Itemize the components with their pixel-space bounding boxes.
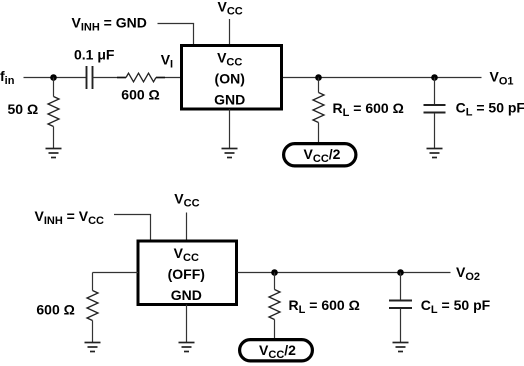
wire fin to junction (24, 77, 87, 79)
resistor RL1 (313, 93, 324, 123)
svg-text:(ON): (ON) (215, 71, 245, 87)
resistor 600 ohm top (126, 73, 156, 82)
svg-text:0.1 μF: 0.1 μF (74, 47, 115, 63)
svg-text:600 Ω: 600 Ω (121, 87, 159, 103)
junction dot at fin node (50, 74, 57, 81)
wire stub right of R 600 (156, 77, 165, 79)
svg-text:CL = 50 pF: CL = 50 pF (456, 100, 524, 119)
svg-text:RL = 600 Ω: RL = 600 Ω (289, 297, 360, 316)
wire capacitor to R 600 (93, 77, 118, 79)
svg-text:50 Ω: 50 Ω (8, 101, 39, 117)
wire dot to RL1 (318, 78, 320, 93)
wire VCC2 down to box top (186, 213, 188, 242)
wire VINH down to box top (193, 24, 195, 47)
junction dot RL1 (315, 74, 322, 81)
wire R 600 bottom to ground (92, 321, 94, 343)
svg-text:VINH = VCC: VINH = VCC (35, 208, 105, 227)
source oval VCC/2 bottom (240, 340, 313, 361)
wire junction down to R 50 ohm (53, 78, 55, 97)
wire stub left of R 600 (117, 77, 126, 79)
wire dot to CL1 (434, 78, 436, 105)
svg-text:VCC: VCC (174, 190, 199, 209)
ground below box U2 (179, 343, 195, 352)
source oval VCC/2 top (284, 144, 356, 166)
svg-text:600 Ω: 600 Ω (36, 302, 74, 318)
junction dot RL2 (271, 269, 278, 276)
wire VINH2 down to box top (150, 215, 152, 242)
svg-text:CL = 50 pF: CL = 50 pF (421, 297, 491, 316)
capacitor CL1 (424, 105, 446, 113)
svg-text:fin: fin (0, 68, 15, 87)
wire dot to RL2 (274, 273, 276, 290)
wire output VO1 (283, 77, 482, 79)
wire CL2 to ground (400, 309, 402, 343)
capacitor CL2 (389, 301, 412, 309)
svg-text:VINH = GND: VINH = GND (72, 15, 147, 34)
svg-text:GND: GND (214, 91, 245, 107)
resistor 600 ohm bottom (87, 291, 98, 321)
wire box U1 GND down (229, 109, 231, 149)
capacitor 0.1 uF (87, 66, 93, 89)
junction dot CL2 (397, 269, 404, 276)
svg-text:RL = 600 Ω: RL = 600 Ω (333, 100, 404, 119)
wire RL2 to VCC/2 source (274, 320, 276, 340)
svg-text:VO2: VO2 (456, 264, 480, 283)
svg-text:(OFF): (OFF) (168, 266, 205, 282)
wire VINH2 horizontal (114, 214, 151, 216)
ground below CL1 (427, 149, 443, 158)
wire dot to CL2 (400, 273, 402, 301)
resistor RL2 (269, 290, 280, 320)
resistor 50 ohm (48, 97, 59, 127)
wire R 50 to ground (53, 127, 55, 149)
wire RL1 to VCC/2 source (318, 123, 320, 144)
ground below 50 ohm (46, 149, 62, 158)
wire VCC down to box top (229, 19, 231, 46)
ground below 600 ohm bottom (85, 343, 101, 352)
wire box U2 GND down (186, 305, 188, 343)
svg-text:GND: GND (171, 287, 202, 303)
svg-text:VCC: VCC (218, 0, 243, 18)
ground below box U1 (222, 149, 238, 158)
wire CL1 to ground (434, 113, 436, 149)
device box U1 (ON) (182, 46, 282, 110)
wire down to R 600 bottom (92, 273, 94, 291)
wire box U2 left to R 600 (93, 272, 139, 274)
svg-text:VO1: VO1 (490, 68, 514, 87)
wire output VO2 (238, 272, 451, 274)
svg-text:VI: VI (161, 52, 173, 71)
ground below CL2 (393, 343, 409, 352)
wire R 600 to box VI (165, 77, 182, 79)
junction dot CL1 (431, 74, 438, 81)
device box U2 (OFF) (138, 241, 237, 305)
wire VINH horizontal (158, 23, 195, 25)
